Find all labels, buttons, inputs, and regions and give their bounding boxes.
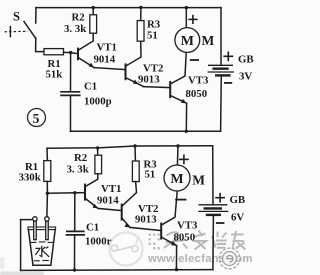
scan smudge bottom left (0, 272, 44, 275)
svg-text:3. 3k: 3. 3k (64, 23, 86, 35)
label - motor1 (190, 59, 199, 61)
svg-text:51: 51 (145, 169, 156, 181)
label - motor2 (175, 199, 186, 201)
svg-text:VT1: VT1 (101, 183, 121, 195)
motor M circuit1 (175, 28, 200, 53)
label + battery2 (215, 193, 225, 203)
label - battery2 (216, 222, 225, 224)
wire rail to R2 (92, 8, 94, 15)
watermark round logo (219, 248, 240, 269)
wire bottom rail circuit2 (21, 269, 213, 272)
svg-text:VT3: VT3 (177, 220, 198, 232)
node motor top junction circuit2 (176, 144, 179, 147)
svg-text:51k: 51k (46, 69, 63, 81)
transistor VT2 circuit2 (122, 204, 130, 228)
wire bottom rail circuit1 (71, 130, 221, 132)
resistor R2 circuit1 (90, 15, 97, 33)
node below R1 junction (46, 192, 49, 195)
sensor probe right (46, 221, 49, 240)
svg-text:9014: 9014 (94, 54, 116, 66)
figure number 5 (28, 109, 46, 127)
wire switch upper lead (35, 8, 37, 23)
svg-text:M: M (202, 33, 215, 48)
wire VT1 emitter to VT2 base circuit2 (98, 208, 121, 210)
wire left sensor lead down (20, 220, 22, 271)
wire rail to motor circuit2 (176, 146, 179, 165)
svg-text:6V: 6V (231, 212, 244, 224)
node R3 top junction (139, 6, 142, 9)
svg-text:5: 5 (33, 111, 40, 126)
resistor R1 circuit1 (44, 49, 64, 55)
water cup (28, 227, 56, 265)
wire rail corner to R1 circuit2 (46, 148, 48, 160)
svg-text:S: S (13, 10, 20, 24)
svg-text:GB: GB (230, 194, 246, 206)
wire node down to right probe (46, 193, 49, 216)
node R3 top junction circuit2 (133, 144, 136, 147)
wire rail to R3 circuit2 (134, 146, 136, 161)
svg-text:3. 3k: 3. 3k (67, 164, 89, 176)
wire rail to R2 circuit2 (97, 148, 99, 156)
wire battery2 to bottom rail (212, 215, 215, 270)
svg-text:330k: 330k (19, 172, 41, 184)
wire R1 to base node (64, 51, 71, 53)
node base VT1 junction (69, 51, 72, 54)
svg-text:8050: 8050 (186, 88, 208, 100)
sensor terminal circle left (33, 217, 37, 221)
water level dashes (31, 242, 54, 261)
transistor VT1 circuit1 (78, 33, 94, 67)
wire R1 to node circuit2 (46, 181, 48, 193)
svg-text:9013: 9013 (135, 214, 157, 226)
svg-text:VT1: VT1 (97, 42, 117, 54)
switch S actuator bar (9, 27, 11, 37)
wire VT1 emitter to VT2 base (94, 68, 125, 70)
svg-text:M: M (181, 34, 194, 49)
svg-text:C1: C1 (86, 222, 99, 234)
resistor R1 circuit2 (44, 161, 51, 182)
wire node to VT1 base circuit2 (47, 192, 84, 195)
capacitor C1 circuit2 (66, 231, 85, 235)
svg-text:C1: C1 (84, 81, 97, 93)
svg-text:VT3: VT3 (188, 75, 209, 87)
wire VT2 emitter to VT3 base (144, 87, 170, 88)
node R2 top junction (92, 6, 95, 9)
label + battery1 (223, 51, 233, 61)
wire VT3 emitter to bottom rail circuit2 (175, 246, 177, 270)
resistor R2 circuit2 (95, 155, 102, 174)
svg-text:9013: 9013 (138, 74, 160, 86)
capacitor C1 circuit1 (60, 92, 80, 96)
watermark chinese text 电子发烧友 (hand drawn gray strokes) (164, 231, 246, 250)
wire VT3 emitter to bottom rail (185, 103, 187, 131)
svg-text:R2: R2 (72, 12, 85, 24)
resistor R3 circuit2 (132, 161, 139, 182)
watermark logo circle (110, 233, 143, 266)
switch S actuator dashed link (5, 30, 28, 33)
wire VT2 emitter to VT3 base circuit2 (130, 227, 161, 230)
svg-text:R2: R2 (74, 152, 87, 164)
svg-text:9014: 9014 (97, 195, 119, 207)
node C1 bottom rail junction (73, 268, 76, 271)
svg-text:8050: 8050 (174, 232, 196, 244)
wire rail to motor (185, 8, 187, 28)
wire right rail circuit2 (212, 146, 214, 205)
transistor VT3 circuit2 (161, 192, 177, 246)
svg-text:3V: 3V (239, 71, 252, 83)
battery GB circuit1 (208, 65, 234, 75)
wire C1 to bottom rail circuit2 (74, 235, 76, 270)
resistor R3 circuit1 (137, 21, 144, 42)
wire rail to R3 (140, 7, 142, 20)
label - battery1 (224, 82, 232, 84)
wire C1 to bottom rail (70, 95, 72, 131)
node motor top junction (185, 6, 188, 9)
transistor VT2 circuit1 (126, 41, 144, 86)
svg-text:1000p: 1000p (84, 96, 112, 108)
svg-text:1000r: 1000r (85, 236, 112, 248)
wire right rail circuit1 (220, 8, 222, 65)
node R2 top junction circuit2 (96, 146, 99, 149)
wire R3 to VT2 collector circuit2 (122, 182, 137, 206)
transistor VT1 circuit2 (85, 184, 98, 209)
wire node down to C1 (70, 53, 72, 92)
transistor VT3 circuit1 (170, 53, 186, 103)
sensor terminal circle right (45, 217, 49, 221)
node C1 top junction circuit2 (73, 191, 76, 194)
wire switch to R1 (36, 38, 44, 51)
watermark QR dots (149, 234, 160, 250)
wire top rail circuit2 (47, 146, 213, 148)
label + motor1 (188, 15, 197, 24)
wire node down to C1 circuit2 (74, 193, 76, 231)
sensor probe left (34, 221, 37, 240)
wire left sensor lead horizontal (21, 219, 33, 221)
wire top rail circuit1 (36, 7, 221, 9)
svg-text:51: 51 (147, 30, 158, 42)
wire node to VT1 base (71, 53, 78, 54)
wire battery1 to bottom rail (220, 75, 223, 131)
motor M circuit2 (164, 165, 190, 191)
battery GB circuit2 (198, 205, 228, 215)
svg-text:M: M (192, 173, 205, 188)
label water character (35, 246, 49, 257)
svg-text:M: M (170, 172, 183, 187)
switch S lever (24, 22, 36, 39)
wire R2 to VT1 collector circuit2 (85, 174, 98, 187)
label + motor2 (179, 155, 189, 165)
svg-text:GB: GB (238, 54, 254, 66)
